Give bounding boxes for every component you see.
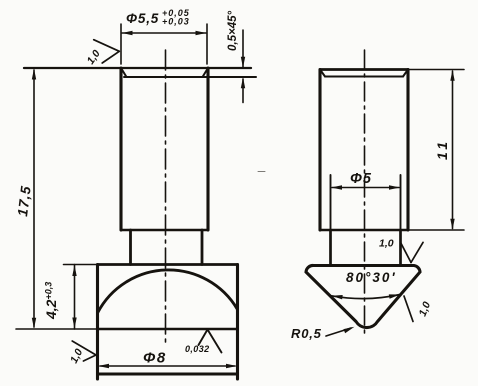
right view: neck right edge / Φ5 extension bbox=[400, 175, 402, 230]
dimension 17,5 line bbox=[33, 70, 35, 327]
angle 80°30' arc bbox=[332, 295, 401, 299]
left view: shaft right edge bbox=[206, 68, 209, 230]
left view: head left edge bbox=[96, 265, 99, 380]
callout 1,0 top-left leader bbox=[94, 40, 120, 52]
right view: cylinder right edge bbox=[406, 70, 409, 231]
svg-text:17,5: 17,5 bbox=[14, 184, 34, 217]
svg-text:Φ5: Φ5 bbox=[350, 171, 372, 187]
svg-text:Φ5,5: Φ5,5 bbox=[126, 11, 159, 26]
dimension 0,5x45° arrows bbox=[242, 30, 244, 67]
centerline right view bbox=[364, 50, 366, 338]
svg-text:11: 11 bbox=[434, 138, 450, 160]
left view: chamfer slant left bbox=[121, 68, 127, 77]
right view: neck left edge / Φ5 extension bbox=[330, 175, 332, 230]
callout 1,0 right-bottom leader bbox=[404, 296, 413, 322]
roughness mark on dome base bbox=[199, 330, 208, 346]
svg-text:0,032: 0,032 bbox=[185, 344, 210, 354]
label Φ5,5 +0,05/+0,03 bbox=[126, 8, 190, 27]
dimension 4,2 line bbox=[74, 265, 76, 330]
svg-text:1,0: 1,0 bbox=[379, 238, 394, 250]
left view: shoulder step line bbox=[121, 229, 208, 232]
callout 1,0 right-top leader bbox=[401, 243, 411, 262]
right view: cylinder top face line (with extension for 11 dim) bbox=[320, 68, 408, 71]
left view: head bottom edge bbox=[98, 373, 238, 376]
right view: cylinder left edge bbox=[318, 70, 321, 231]
left view: dome base line (with extension for 17,5 dim) bbox=[16, 328, 98, 330]
left view: neck right edge bbox=[201, 230, 204, 265]
right view: chamfer line bbox=[325, 76, 403, 78]
svg-text:1,0: 1,0 bbox=[68, 347, 85, 366]
dimension Φ5,5 line bbox=[122, 32, 206, 34]
stray scan mark bbox=[258, 171, 265, 173]
callout 1,0 bottom-left leader bbox=[72, 341, 96, 355]
dimension Φ5,5 extension lines bbox=[120, 24, 122, 64]
centerline left view bbox=[165, 50, 167, 342]
left view: chamfer line bbox=[124, 76, 256, 78]
svg-text:4,2+0,3: 4,2+0,3 bbox=[43, 282, 59, 320]
right view: chamfer slants bbox=[320, 70, 325, 77]
left view: head top line (with extension for 4,2 dim) bbox=[64, 264, 98, 266]
svg-text:+0,03: +0,03 bbox=[162, 17, 190, 27]
svg-text:Φ8: Φ8 bbox=[143, 350, 167, 367]
left view: dome arc bbox=[98, 270, 238, 313]
svg-text:1,0: 1,0 bbox=[417, 300, 434, 318]
svg-text:R0,5: R0,5 bbox=[291, 326, 322, 341]
svg-text:1,0: 1,0 bbox=[85, 48, 103, 67]
dimension 11 line bbox=[452, 71, 454, 229]
left view: chamfer slant right bbox=[203, 68, 209, 77]
svg-text:0,5×45°: 0,5×45° bbox=[227, 11, 239, 51]
left view: shaft top face line (with extensions) bbox=[24, 67, 251, 69]
svg-text:80°30′: 80°30′ bbox=[346, 270, 397, 285]
R0,5 leader with arrow bbox=[326, 328, 351, 336]
left view: head right edge bbox=[236, 265, 239, 380]
dimension Φ5 line bbox=[332, 187, 399, 189]
right view: cone outline bbox=[306, 265, 420, 327]
left view: shaft left edge bbox=[119, 68, 122, 230]
left view: neck left edge bbox=[129, 230, 132, 265]
dimension Φ8 line bbox=[100, 365, 235, 367]
right view: cylinder bottom line (with extension for 11 dim) bbox=[320, 229, 408, 232]
